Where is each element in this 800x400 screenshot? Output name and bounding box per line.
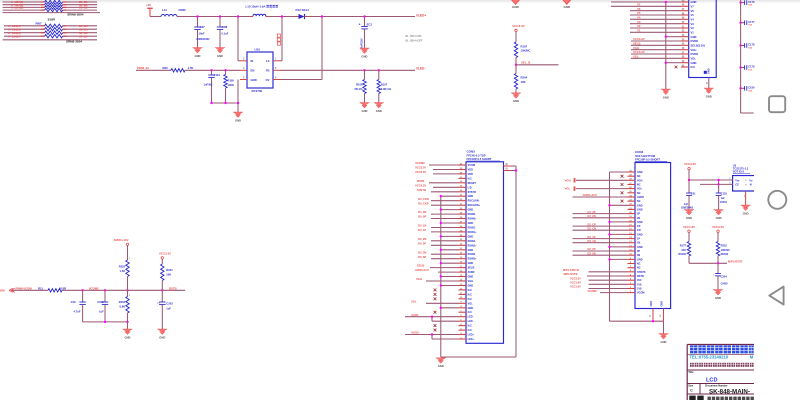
wire VLED bus (right column) [741,0,754,113]
ground C204 [713,290,723,300]
svg-text:1uF/NC: 1uF/NC [204,83,213,87]
node VGH to CON3 pin 14 [416,277,459,281]
svg-text:RY3730: RY3730 [252,89,263,93]
svg-text:VCC1.8V: VCC1.8V [570,281,581,285]
svg-text:N.C: N.C [691,65,696,69]
svg-text:D0_0P: D0_0P [418,215,426,219]
junction dots on +5V rail [196,15,365,17]
svg-text:GND: GND [468,276,474,279]
connector CON4 pins 1-30 [628,170,646,294]
svg-text:D0_3P: D0_3P [418,255,426,259]
svg-text:L10 10uH-1.9A: L10 10uH-1.9A [246,5,267,9]
svg-text:10uF: 10uF [199,32,205,36]
svg-text:S0_D7: S0_D7 [79,34,88,38]
ground CON3 bus [436,358,446,368]
svg-text:AVDD: AVDD [468,271,475,274]
svg-text:GND: GND [637,246,643,249]
svg-text:GND: GND [637,258,643,261]
svg-text:RSTB: RSTB [169,286,177,290]
svg-text:GND: GND [468,285,474,288]
power flag VCC3.3V [512,24,525,42]
svg-text:Size: Size [688,384,694,387]
nav button circle [768,191,786,209]
svg-text:0N: 0N [637,254,640,257]
svg-text:E08E30402: E08E30402 [681,207,694,210]
svg-text:VGH: VGH [468,280,474,283]
svg-text:VCOM: VCOM [0,289,5,293]
resistor R204 10K [514,74,527,93]
ground U3 [744,191,746,205]
resistor R232 10K/NC R0402 [716,242,730,264]
ground CON2 bottom pin [707,78,709,89]
node VGH jumper to CON4 pin 28 [565,178,628,182]
svg-text:RXIN2+: RXIN2+ [468,244,477,247]
title block frame [687,345,754,400]
resistor R105 100K [224,70,235,103]
svg-text:RXIN0-: RXIN0- [468,213,476,216]
node VCC3.3V to CON3 pin 35 [415,183,459,187]
svg-text:10K/NC: 10K/NC [721,248,730,252]
svg-text:R231: R231 [166,268,173,272]
ground C203 [157,329,167,339]
svg-text:GND: GND [650,301,653,307]
svg-text:AVDD: AVDD [637,196,644,199]
svg-text:VDD: VDD [468,169,473,172]
power flag VCC3.3V (R231) [159,251,171,264]
connector CON4 FPC30P-0.5 BOTTOM [635,150,671,309]
svg-text:4.7K: 4.7K [188,66,194,70]
capacitor C1710 [739,86,755,93]
svg-text:OV: OV [265,78,269,82]
power flag VCC3.3V (LDO) [684,162,696,180]
node D0_0N to CON3 pin 29 [418,210,459,214]
svg-text:62: 62 [707,81,709,84]
svg-text:C118: C118 [721,191,728,195]
svg-text:C204: C204 [721,274,728,278]
svg-text:1: 1 [129,258,131,260]
svg-text:STBYB: STBYB [637,271,646,274]
svg-text:D0_CKN: D0_CKN [418,197,429,201]
wire U10.LX to rail [280,17,282,61]
resistor R231 10K [161,264,174,290]
svg-text:GND: GND [715,296,721,300]
resistor network RN7 SRN8-3804 330R [3,17,97,43]
svg-text:15K: 15K [681,248,686,252]
connector CON3 FPC40-0.5 TOP [466,150,504,344]
power flag AVDD+10V [114,238,129,260]
svg-text:SELB: SELB [633,42,640,46]
svg-text:GND: GND [637,208,643,211]
svg-text:10K/NC: 10K/NC [521,49,531,53]
node D4_2P/D4_2N to CON4 [573,210,628,218]
svg-text:R0402: R0402 [721,252,729,256]
node D0_3P to CON3 pin 19 [418,255,459,259]
svg-text:DVDD: DVDD [691,52,699,56]
svg-text:CON3: CON3 [467,150,476,154]
svg-text:CE: CE [735,183,739,187]
svg-text:GND: GND [637,233,643,236]
wire U10.OV sense to VLED+ [280,17,322,80]
svg-text:C91: C91 [691,191,696,195]
svg-text:100K: 100K [228,83,234,87]
svg-text:1uF: 1uF [721,197,726,200]
svg-text:GND: GND [468,209,474,212]
nav button square [769,96,785,112]
svg-text:LED+: LED+ [468,338,475,341]
svg-text:C203: C203 [166,302,173,306]
node D0_CKP to CON3 pin 31 [418,201,459,205]
svg-text:MIP1-RSTB: MIP1-RSTB [728,260,743,264]
svg-text:V2: V2 [691,26,695,30]
node VCOM2 to CON4 pin 1 [588,289,628,293]
svg-text:GND: GND [468,262,474,265]
resistor R106 3R,1% [354,70,366,102]
svg-text:DVDD: DVDD [691,39,699,43]
svg-text:D0_CKP: D0_CKP [418,201,429,205]
svg-text:+5V: +5V [146,3,151,7]
node VGL to CON3 pin 9 [411,299,459,303]
svg-text:GND: GND [251,78,257,82]
svg-text:SRN8-3804: SRN8-3804 [67,13,83,17]
svg-text:R0402: R0402 [678,252,686,256]
svg-text:AVDD+15V: AVDD+15V [583,193,597,197]
pin GND (rotated, inside box) [704,68,711,74]
svg-text:NC: NC [637,200,641,203]
svg-text:SELB: SELB [417,264,424,268]
node VCC3.3V to CON3 pin 38 [415,170,459,174]
svg-text:R106: R106 [356,82,363,86]
svg-text:D0_2P: D0_2P [418,241,426,245]
svg-text:VGL: VGL [565,187,571,191]
capacitor C91 1uF [681,180,696,210]
wires VCC3.3V SELB VGH VGL nets [631,37,681,58]
svg-text:D0_2N: D0_2N [418,237,426,241]
ground (top right, partially cut) [562,0,572,9]
svg-text:3R,1%: 3R,1% [354,87,363,91]
svg-text:GND: GND [563,5,571,9]
svg-text:RXIN1-: RXIN1- [468,227,476,230]
resistor R234 6.8K [119,290,131,322]
svg-text:R107: R107 [381,82,388,86]
svg-text:Title: Title [688,370,694,374]
svg-text:FB: FB [266,69,270,73]
svg-text:LCD: LCD [706,377,718,383]
svg-text:IN: IN [251,59,254,63]
ground CON2 bus [661,89,671,99]
svg-text:EC1: EC1 [367,22,373,26]
svg-text:C179: C179 [748,65,755,69]
svg-text:R223: R223 [119,264,126,268]
svg-text:2N: 2N [637,217,640,220]
svg-text:RXIN0+: RXIN0+ [468,218,477,221]
svg-text:GND: GND [637,221,643,224]
node D2_0P/D2_0N to CON4 [573,247,628,255]
svg-text:3V3: 3V3 [637,279,642,282]
svg-text:NC: NC [637,192,641,195]
svg-text:GND: GND [468,222,474,225]
node PWM-VCOM port [0,287,32,293]
capacitor C118 1uF C0402 [716,184,728,209]
wire / node MIP1-RSTB [689,260,743,265]
node MIP1-RSTB to CON4 pin 5 [564,272,628,276]
svg-text:MIP1-RSTB: MIP1-RSTB [564,272,578,276]
svg-text:C87: C87 [200,25,206,29]
svg-text:FPC30P-0.5-SHORT: FPC30P-0.5-SHORT [635,158,660,162]
pins 31 32 GND bottom of CON4 [650,301,664,323]
svg-text:GND: GND [716,216,722,220]
ground C88 [215,48,225,58]
svg-text:GND: GND [468,307,474,310]
svg-text:D12 SS14: D12 SS14 [296,8,310,12]
svg-text:V1: V1 [637,29,641,33]
node MIP1-STBYB to CON4 pin 6 [563,268,628,272]
svg-text:VCOM2: VCOM2 [415,161,425,165]
svg-text:GND: GND [512,5,520,9]
svg-text:C0402: C0402 [720,201,728,204]
svg-text:GND: GND [125,335,131,339]
svg-text:RXIN1+: RXIN1+ [468,231,477,234]
svg-text:RXCLKIN+: RXCLKIN+ [468,204,481,207]
node VCOM2 to CON3 pin 40 [415,161,459,165]
svg-text:N.C: N.C [468,298,473,301]
wire VCC3.3V to U3.Vin [688,179,733,186]
node PWM_BL with resistor R90 4.7K [136,66,240,72]
svg-text:LED+: LED+ [468,334,475,337]
svg-text:VCC3.3V: VCC3.3V [415,183,426,187]
svg-text:GND: GND [660,301,663,307]
svg-text:104: 104 [748,4,752,7]
ground U10 [233,112,243,122]
svg-text:AVDD+10V: AVDD+10V [415,268,429,272]
svg-text:D0_3N: D0_3N [418,250,426,254]
svg-text:BL_BB=0:OFF: BL_BB=0:OFF [406,40,423,43]
svg-text:C0402: C0402 [721,283,729,286]
svg-text:N.C: N.C [468,325,473,328]
capacitor C176 [739,0,755,7]
svg-text:NC: NC [637,175,641,178]
svg-text:GND: GND [637,204,643,207]
inductor L10 10uH-1.9A [246,5,278,17]
svg-text:V4: V4 [637,16,641,20]
resistor R223 1.5K [119,258,131,290]
svg-text:C88: C88 [222,25,228,29]
svg-text:FPC40P-0.5 SHORT: FPC40P-0.5 SHORT [467,157,492,161]
resistor network RN6 SRN8-3804 330R [3,0,100,16]
svg-text:GND: GND [513,99,519,103]
resistor R107 3.9R,1% [377,70,392,102]
svg-text:1P: 1P [637,238,640,241]
svg-text:RXIN3-: RXIN3- [468,253,476,256]
svg-text:VGH: VGH [637,179,643,182]
svg-text:VCC1.8V: VCC1.8V [683,225,695,229]
svg-text:VDD: VDD [468,173,473,176]
nav button back triangle [769,287,783,305]
svg-text:4: 4 [243,67,245,70]
capacitor C202 1uF [97,290,108,322]
svg-text:1V8: 1V8 [637,288,642,291]
svg-text:CP: CP [637,225,641,228]
svg-text:VCC3.3V: VCC3.3V [512,24,525,28]
svg-text:VGL: VGL [691,56,697,60]
svg-text:RN7: RN7 [36,21,42,25]
svg-text:STBYB: STBYB [468,191,477,194]
node VLED- to CON3 pins 6,5 [405,313,459,321]
svg-text:NC: NC [637,267,641,270]
svg-text:RESET: RESET [468,182,477,185]
wire GND bus of CON2 [665,1,681,89]
svg-text:BL_BB=1:ON: BL_BB=1:ON [406,35,422,38]
svg-text:E08E00402: E08E00402 [197,38,211,41]
svg-text:NC: NC [637,263,641,266]
svg-text:FPC40-0.5 TOP: FPC40-0.5 TOP [467,153,486,157]
node VGL jumper to CON4 pin 26 [565,186,628,190]
svg-text:2P: 2P [637,213,640,216]
svg-text:PWM_BL: PWM_BL [137,66,150,70]
op-amp U10 RY3730 boost driver [240,48,280,93]
ground CON2 pin62 [704,88,714,98]
svg-text:AVDD+10V: AVDD+10V [114,238,129,242]
svg-text:1uF: 1uF [684,203,689,206]
svg-text:3: 3 [243,58,245,61]
svg-text:0.1uF: 0.1uF [222,32,229,36]
svg-text:VGL: VGL [411,299,417,303]
node VLED+ to CON3 pins 2,1 [405,331,459,339]
svg-text:VCOM: VCOM [468,164,476,167]
power flag VCC1.8V [683,225,695,242]
svg-text:104: 104 [748,89,752,92]
svg-text:VGH: VGH [691,48,697,52]
svg-text:1uF: 1uF [99,310,104,314]
svg-text:VGL: VGL [637,188,643,191]
svg-text:VGL: VGL [468,302,474,305]
node VCC1.8V to CON4 pin 2 [570,285,628,289]
svg-text:5: 5 [745,180,747,182]
capacitor C49 4.7uF [71,290,86,322]
svg-text:LED-: LED- [468,320,474,323]
svg-text:SEL_B: SEL_B [521,61,530,65]
capacitor C177 [739,20,755,27]
svg-text:4.7uF: 4.7uF [74,310,81,314]
svg-text:V7: V7 [691,4,695,8]
node D0_1N to CON3 pin 26 [418,224,459,228]
svg-text:R232: R232 [721,244,728,248]
svg-text:V7: V7 [637,3,641,7]
capacitor EC1 10uF/25V electrolytic [359,17,373,50]
svg-text:C180: C180 [748,86,755,90]
no-connect marks CON3 [434,289,437,332]
node VCC3.3V to CON4 pin 4 [570,276,628,280]
svg-text:1V8: 1V8 [637,283,642,286]
inductor L11 F80R [161,8,186,16]
svg-text:SOT-23-5: SOT-23-5 [733,170,745,174]
svg-text:C: C [690,389,693,393]
svg-text:SELB: SELB [468,267,475,270]
ground EC1 [360,48,370,58]
capacitor C179 [739,65,755,72]
svg-text:C178: C178 [748,43,755,47]
svg-text:330R: 330R [48,17,56,21]
svg-text:GND: GND [708,68,711,74]
svg-text:GND: GND [159,335,165,339]
svg-text:D0_1P: D0_1P [418,228,426,232]
svg-text:R234: R234 [119,300,126,304]
svg-text:RXIN2-: RXIN2- [468,240,476,243]
node AVDD+10V to CON3 pin 16 [415,268,459,272]
svg-text:NC: NC [637,184,641,187]
svg-text:GND: GND [706,94,712,98]
capacitor C204 C0402 [713,263,728,289]
svg-text:30/0.5-BOTTOM: 30/0.5-BOTTOM [635,154,656,158]
svg-text:C104: C104 [214,73,221,77]
diode D12 SS14 [296,8,310,19]
svg-text:104: 104 [748,69,752,72]
svg-text:V6: V6 [691,9,695,13]
svg-text:VCC3.3V: VCC3.3V [159,251,171,255]
no-connect marks CON4 [621,175,624,203]
svg-text:VCC3.3V: VCC3.3V [415,166,426,170]
svg-text:L11: L11 [162,8,167,12]
node D4_1P/D4_1N to CON4 [573,235,628,243]
svg-text:3: 3 [745,185,747,187]
svg-text:EN: EN [251,69,255,73]
svg-text:D0_1N: D0_1N [418,224,426,228]
svg-text:N.C: N.C [468,329,473,332]
ground R107 [374,103,384,113]
resistor R177 15K R0402 [678,242,690,264]
svg-text:Vo: Vo [749,178,753,182]
svg-text:C176: C176 [748,0,755,4]
node D0_3N to CON3 pin 20 [418,250,459,254]
ground CON4 bus [659,334,669,344]
capacitor C178 [739,43,755,50]
connector CON3 pins 42 41 [504,163,511,171]
svg-text:SELB(3.3V): SELB(3.3V) [691,43,706,47]
capacitor C87 10uF [194,17,210,48]
wire VCOM net [62,286,185,291]
svg-text:MIP1-STBYB: MIP1-STBYB [563,268,579,272]
wire VCOM pins 42/41 to rail [510,166,517,357]
svg-text:GND: GND [468,235,474,238]
connector CON3 pins 1-40 [459,162,481,341]
svg-text:RXIN3+: RXIN3+ [468,258,477,261]
ground CON4 [663,321,665,333]
svg-text:GND: GND [691,61,697,65]
svg-text:VCOM: VCOM [637,292,645,295]
svg-text:C49: C49 [71,300,76,304]
svg-text:GND: GND [663,95,669,99]
svg-text:1m: 1m [157,302,160,304]
wire gnd net of U10 [210,80,239,113]
svg-text:5: 5 [275,67,277,70]
svg-text:V1: V1 [691,30,695,34]
svg-text:Vin: Vin [735,178,739,182]
svg-text:32: 32 [660,314,662,317]
node D0_0P to CON3 pin 28 [418,215,459,219]
svg-text:U10: U10 [255,48,261,52]
connector CON2 (upper right, cut at top) [689,0,717,78]
note BL_BB [406,35,423,43]
node D0_CKN to CON3 pin 32 [418,197,459,201]
regulator U3 TCS2175 SOT-23-5 [729,164,754,191]
svg-text:R177: R177 [680,244,687,248]
svg-text:R11: R11 [38,286,43,290]
svg-text:GND: GND [362,109,368,113]
svg-text:10K: 10K [166,272,171,276]
node SELB to CON3 pin 17 [417,264,459,268]
ground VCOM filter [123,329,133,339]
svg-text:LX: LX [266,59,270,63]
svg-text:GND: GND [686,216,692,220]
